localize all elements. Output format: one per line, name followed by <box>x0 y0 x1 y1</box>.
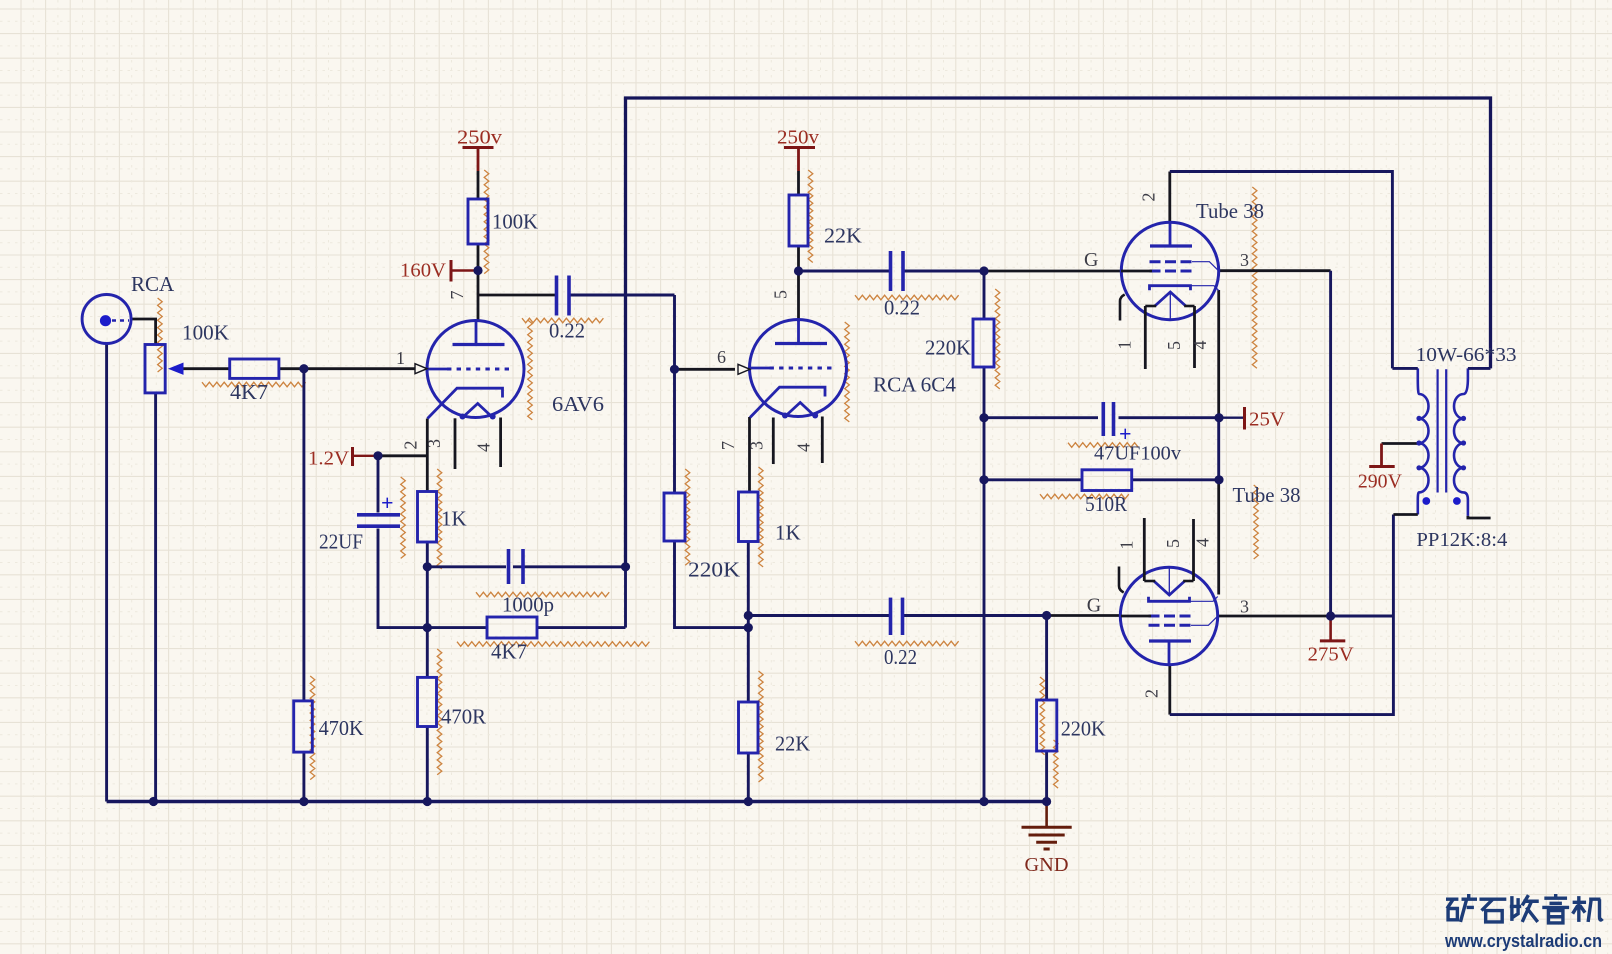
svg-text:6: 6 <box>717 347 726 367</box>
svg-text:7: 7 <box>718 441 738 450</box>
svg-text:4: 4 <box>794 443 814 452</box>
svg-text:22UF: 22UF <box>319 530 363 554</box>
svg-text:25V: 25V <box>1249 409 1286 431</box>
svg-text:4K7: 4K7 <box>491 640 527 664</box>
svg-text:Tube 38: Tube 38 <box>1233 483 1301 507</box>
svg-text:Tube 38: Tube 38 <box>1196 199 1264 223</box>
svg-text:5: 5 <box>1163 539 1183 548</box>
svg-text:220K: 220K <box>925 336 971 360</box>
svg-text:160V: 160V <box>400 260 447 282</box>
svg-text:RCA 6C4: RCA 6C4 <box>873 373 957 397</box>
svg-text:470R: 470R <box>441 705 486 729</box>
svg-text:1000p: 1000p <box>502 593 554 617</box>
svg-text:7: 7 <box>447 291 467 300</box>
svg-text:RCA: RCA <box>131 272 175 296</box>
svg-text:4: 4 <box>1193 538 1213 547</box>
svg-text:22K: 22K <box>824 224 862 248</box>
svg-text:10W-66*33: 10W-66*33 <box>1416 344 1517 366</box>
svg-text:220K: 220K <box>688 558 740 582</box>
svg-text:4: 4 <box>1190 341 1210 350</box>
svg-text:5: 5 <box>1164 341 1184 350</box>
svg-text:3: 3 <box>747 441 767 450</box>
svg-text:470K: 470K <box>319 716 364 740</box>
svg-text:3: 3 <box>424 439 444 448</box>
svg-text:0.22: 0.22 <box>884 645 917 669</box>
svg-text:290V: 290V <box>1358 471 1403 493</box>
svg-text:275V: 275V <box>1308 644 1355 666</box>
svg-text:2: 2 <box>1142 689 1162 698</box>
svg-text:1: 1 <box>396 348 405 368</box>
svg-text:3: 3 <box>1240 597 1249 617</box>
svg-text:G: G <box>1084 249 1098 271</box>
svg-text:1K: 1K <box>441 507 467 531</box>
svg-text:G: G <box>1087 595 1101 617</box>
svg-text:GND: GND <box>1025 854 1069 876</box>
svg-text:+: + <box>381 490 394 515</box>
svg-text:1.2V: 1.2V <box>308 448 350 470</box>
svg-text:22K: 22K <box>775 732 810 756</box>
svg-text:1: 1 <box>1115 341 1135 350</box>
svg-text:6AV6: 6AV6 <box>552 392 604 416</box>
svg-text:100K: 100K <box>182 321 229 345</box>
svg-text:250v: 250v <box>457 127 502 149</box>
svg-text:5: 5 <box>771 290 791 299</box>
svg-text:100K: 100K <box>492 210 538 234</box>
svg-text:1K: 1K <box>775 521 801 545</box>
svg-text:4: 4 <box>474 443 494 452</box>
svg-text:2: 2 <box>401 441 421 450</box>
svg-text:www.crystalradio.cn: www.crystalradio.cn <box>1444 930 1602 951</box>
svg-text:1: 1 <box>1117 541 1137 550</box>
svg-text:4K7: 4K7 <box>230 380 268 404</box>
svg-text:250v: 250v <box>777 127 819 149</box>
svg-text:47UF100v: 47UF100v <box>1094 443 1181 465</box>
svg-text:PP12K:8:4: PP12K:8:4 <box>1416 529 1507 551</box>
svg-text:220K: 220K <box>1061 717 1106 741</box>
svg-text:2: 2 <box>1139 193 1159 202</box>
svg-text:0.22: 0.22 <box>884 296 920 320</box>
svg-text:0.22: 0.22 <box>549 319 585 343</box>
svg-text:510R: 510R <box>1085 492 1127 516</box>
svg-text:3: 3 <box>1240 250 1249 270</box>
